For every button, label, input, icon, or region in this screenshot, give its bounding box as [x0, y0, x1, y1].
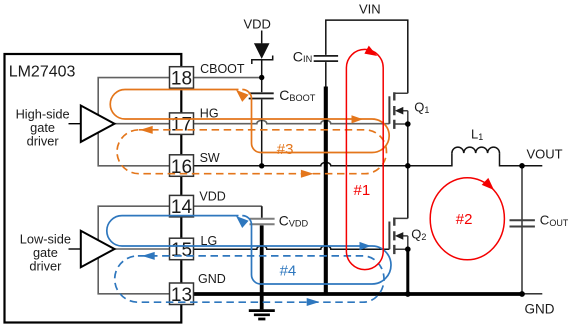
svg-text:#1: #1	[354, 182, 371, 199]
svg-text:#4: #4	[280, 263, 297, 280]
svg-text:#3: #3	[277, 141, 294, 158]
svg-text:18: 18	[171, 69, 192, 90]
svg-text:15: 15	[171, 240, 192, 261]
svg-text:17: 17	[171, 115, 192, 136]
svg-text:VIN: VIN	[359, 2, 381, 17]
svg-text:driver: driver	[29, 259, 62, 274]
svg-text:#2: #2	[456, 211, 473, 228]
svg-text:VDD: VDD	[243, 17, 270, 32]
svg-text:SW: SW	[200, 151, 220, 165]
svg-text:VOUT: VOUT	[527, 146, 563, 161]
svg-text:GND: GND	[198, 272, 226, 286]
svg-text:CBOOT: CBOOT	[200, 62, 245, 76]
svg-text:GND: GND	[525, 301, 555, 316]
svg-text:driver: driver	[27, 134, 60, 149]
svg-text:LM27403: LM27403	[9, 64, 76, 81]
svg-text:16: 16	[171, 157, 192, 178]
svg-text:VDD: VDD	[199, 189, 225, 203]
